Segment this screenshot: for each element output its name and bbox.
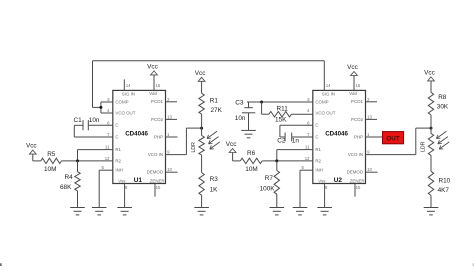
svg-text:14: 14 xyxy=(126,83,131,88)
svg-text:Vcc: Vcc xyxy=(195,70,206,77)
svg-text:R1: R1 xyxy=(115,147,121,152)
svg-text:13: 13 xyxy=(367,114,372,119)
svg-text:CD4046: CD4046 xyxy=(325,130,348,137)
svg-text:15: 15 xyxy=(356,185,361,190)
svg-text:R6: R6 xyxy=(247,150,256,157)
svg-text:PCO2: PCO2 xyxy=(151,117,164,122)
svg-text:R8: R8 xyxy=(438,94,447,101)
svg-text:7: 7 xyxy=(107,132,110,137)
svg-text:2: 2 xyxy=(167,97,170,102)
svg-text:12: 12 xyxy=(305,156,310,161)
svg-text:8: 8 xyxy=(325,185,328,190)
svg-text:27K: 27K xyxy=(211,107,223,114)
svg-text:2: 2 xyxy=(367,97,370,102)
svg-text:11: 11 xyxy=(105,145,110,150)
svg-text:Vcc: Vcc xyxy=(347,64,358,71)
svg-text:VCO OUT: VCO OUT xyxy=(115,110,135,115)
svg-text:PHP: PHP xyxy=(354,134,363,139)
svg-text:VCO IN: VCO IN xyxy=(148,152,163,157)
svg-text:C: C xyxy=(315,134,318,139)
svg-text:COMP: COMP xyxy=(115,99,128,104)
svg-text:INH: INH xyxy=(115,168,123,173)
svg-text:Vdd: Vdd xyxy=(149,91,157,96)
svg-text:15: 15 xyxy=(156,185,161,190)
svg-text:Vcc: Vcc xyxy=(147,63,158,70)
svg-text:10n: 10n xyxy=(89,117,100,124)
svg-text:10M: 10M xyxy=(44,166,56,173)
svg-text:U2: U2 xyxy=(334,177,343,184)
svg-text:4K7: 4K7 xyxy=(438,187,450,194)
svg-text:3: 3 xyxy=(307,97,310,102)
svg-text:1: 1 xyxy=(367,132,370,137)
svg-text:13: 13 xyxy=(167,114,172,119)
svg-text:4: 4 xyxy=(107,108,110,113)
svg-text:1: 1 xyxy=(167,132,170,137)
svg-text:LDR: LDR xyxy=(191,142,197,153)
svg-text:16: 16 xyxy=(156,83,161,88)
svg-text:6: 6 xyxy=(107,120,110,125)
svg-text:4: 4 xyxy=(307,108,310,113)
svg-text:SIG IN: SIG IN xyxy=(322,91,335,96)
svg-text:Vcc: Vcc xyxy=(424,69,435,76)
svg-text:PHP: PHP xyxy=(154,134,163,139)
svg-text:VCO OUT: VCO OUT xyxy=(315,110,335,115)
svg-text:12: 12 xyxy=(105,156,110,161)
svg-text:R2: R2 xyxy=(115,158,121,163)
svg-text:3: 3 xyxy=(107,97,110,102)
svg-text:C: C xyxy=(115,123,118,128)
svg-text:5: 5 xyxy=(302,165,305,170)
svg-text:LDR: LDR xyxy=(420,141,426,152)
svg-text:16: 16 xyxy=(356,83,361,88)
svg-text:Vss: Vss xyxy=(118,178,126,183)
svg-text:DEMOD: DEMOD xyxy=(147,170,163,175)
svg-text:R5: R5 xyxy=(47,151,56,158)
svg-text:11: 11 xyxy=(305,145,310,150)
svg-text:R11: R11 xyxy=(277,105,289,112)
svg-text:15K: 15K xyxy=(275,117,287,124)
svg-text:1n: 1n xyxy=(292,137,300,144)
svg-text:OUT: OUT xyxy=(386,135,399,142)
svg-text:R3: R3 xyxy=(210,176,219,183)
svg-text:100K: 100K xyxy=(260,185,276,192)
svg-text:U1: U1 xyxy=(134,177,143,184)
svg-text:R2: R2 xyxy=(315,158,321,163)
svg-text:PCO2: PCO2 xyxy=(351,117,364,122)
svg-text:5: 5 xyxy=(102,165,105,170)
svg-text:INH: INH xyxy=(315,168,323,173)
svg-text:R7: R7 xyxy=(265,175,274,182)
svg-text:ZENER: ZENER xyxy=(150,178,165,183)
svg-text:10: 10 xyxy=(367,167,372,172)
svg-text:SIG IN: SIG IN xyxy=(122,91,135,96)
svg-text:9: 9 xyxy=(167,150,170,155)
svg-text:C3: C3 xyxy=(235,100,244,107)
svg-text:C1: C1 xyxy=(74,117,83,124)
svg-text:Vss: Vss xyxy=(318,178,326,183)
svg-text:68K: 68K xyxy=(60,184,72,191)
svg-text:10M: 10M xyxy=(245,166,257,173)
svg-text:1K: 1K xyxy=(210,186,219,193)
svg-text:6: 6 xyxy=(307,120,310,125)
svg-text:C: C xyxy=(315,123,318,128)
svg-text:R4: R4 xyxy=(65,174,74,181)
svg-text:CD4046: CD4046 xyxy=(125,130,148,137)
svg-text:Vdd: Vdd xyxy=(349,91,357,96)
svg-text:Vcc: Vcc xyxy=(26,143,37,150)
svg-text:VCO IN: VCO IN xyxy=(348,152,363,157)
svg-text:PCO1: PCO1 xyxy=(151,99,164,104)
svg-text:DEMOD: DEMOD xyxy=(347,170,363,175)
svg-text:14: 14 xyxy=(326,83,331,88)
svg-text:R10: R10 xyxy=(439,178,451,185)
svg-text:PCO1: PCO1 xyxy=(351,99,364,104)
svg-text:10n: 10n xyxy=(235,115,246,122)
svg-text:C2: C2 xyxy=(277,137,286,144)
svg-text:ZENER: ZENER xyxy=(350,178,365,183)
svg-text:7: 7 xyxy=(307,132,310,137)
svg-text:9: 9 xyxy=(367,150,370,155)
svg-text:30K: 30K xyxy=(437,103,449,110)
svg-text:R1: R1 xyxy=(210,97,219,104)
svg-text:Vcc: Vcc xyxy=(226,141,237,148)
svg-text:R1: R1 xyxy=(315,147,321,152)
svg-text:C: C xyxy=(115,134,118,139)
svg-text:8: 8 xyxy=(125,185,128,190)
svg-text:COMP: COMP xyxy=(315,99,328,104)
svg-text:10: 10 xyxy=(167,167,172,172)
